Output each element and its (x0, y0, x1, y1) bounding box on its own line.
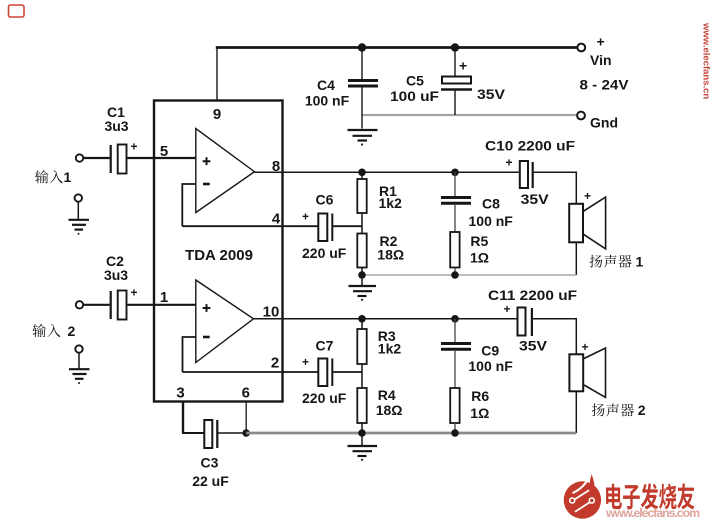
svg-text:9: 9 (213, 106, 221, 123)
ground under C4 (348, 130, 378, 141)
speaker LS2 (569, 354, 583, 391)
svg-text:1k2: 1k2 (379, 195, 403, 211)
svg-text:R4: R4 (378, 387, 396, 403)
resistor R2 (357, 234, 366, 268)
wire pin10 output net (254, 318, 518, 320)
node junction C5/V+ (451, 43, 459, 51)
node C8 top (451, 169, 459, 177)
svg-text:C11 2200 uF: C11 2200 uF (488, 287, 577, 303)
wire feedback U1a to pin4 net (182, 184, 196, 226)
svg-text:R6: R6 (471, 388, 489, 404)
wire feedback U1b to pin2 net (183, 337, 196, 372)
label shu-ru input2 (33, 324, 46, 337)
wire return line ch1 (362, 274, 576, 276)
svg-text:TDA 2009: TDA 2009 (185, 247, 253, 264)
svg-text:2: 2 (638, 402, 646, 418)
svg-text:10: 10 (263, 304, 280, 321)
svg-text:C7: C7 (316, 338, 334, 354)
svg-text:1k2: 1k2 (378, 341, 402, 357)
wire speaker2 to return (575, 391, 577, 433)
capacitor C3 (204, 420, 212, 448)
node R6 bottom (451, 429, 459, 437)
svg-text:4: 4 (272, 211, 281, 228)
svg-text:+: + (584, 189, 591, 203)
resistor R3 (361, 319, 363, 329)
svg-text:1Ω: 1Ω (470, 250, 489, 266)
svg-text:Vin: Vin (590, 52, 612, 68)
svg-text:2: 2 (68, 323, 76, 339)
resistor R5 (450, 232, 459, 268)
svg-text:+: + (504, 302, 511, 316)
node R2 bottom (358, 271, 366, 279)
svg-text:+: + (131, 140, 138, 154)
svg-text:6: 6 (242, 385, 250, 402)
speaker LS1 (569, 204, 583, 243)
label +Vin (580, 34, 630, 131)
svg-text:35V: 35V (521, 191, 550, 207)
svg-text:1: 1 (160, 289, 168, 306)
svg-text:22 uF: 22 uF (192, 473, 229, 489)
pin labels (160, 106, 281, 402)
watermark corner box (9, 5, 25, 17)
wire pin4 net (182, 225, 318, 227)
terminal Vin (577, 44, 585, 52)
svg-text:C8: C8 (482, 196, 500, 212)
svg-text:100 uF: 100 uF (390, 88, 439, 104)
label C2 3u3 (104, 253, 128, 283)
wire bottom return ch2 (246, 432, 576, 435)
wire pin2 net (183, 371, 319, 373)
svg-text:3u3: 3u3 (104, 118, 128, 134)
terminal input2 (76, 301, 83, 308)
wire Gnd rail (362, 114, 577, 116)
svg-text:35V: 35V (477, 86, 506, 102)
node R3 top (358, 315, 366, 323)
svg-text:18Ω: 18Ω (376, 402, 403, 418)
terminal Gnd (577, 112, 585, 120)
ground input1 (75, 194, 82, 201)
wire pin9 to V+ rail (216, 48, 218, 101)
svg-text:+: + (506, 156, 513, 170)
ground ch2 (361, 433, 363, 446)
svg-text:C3: C3 (201, 455, 219, 471)
op-amp U1b triangle (196, 280, 254, 363)
capacitor C1 (110, 145, 112, 173)
svg-text:100 nF: 100 nF (305, 93, 350, 109)
wire R3-R4 junction (361, 364, 363, 388)
wire R1-R2 junction (361, 213, 363, 234)
ground ch1 (361, 275, 363, 286)
node pin6/C3 junction (242, 429, 250, 437)
wire C10 to speaker1 (533, 172, 576, 204)
capacitor C9 (454, 319, 456, 342)
capacitor C8 (454, 172, 456, 196)
svg-text:220 uF: 220 uF (302, 245, 347, 261)
label C1 3u3 (104, 104, 128, 134)
label shu-ru input1 (35, 170, 48, 183)
resistor R4 (357, 388, 366, 423)
wire C1 to pin5 / op-amp input (127, 157, 196, 159)
node C9 top (451, 315, 459, 323)
svg-text:+: + (131, 286, 138, 300)
svg-text:1: 1 (636, 254, 644, 270)
wire speaker1 to return (575, 242, 577, 275)
ground input2 (75, 345, 82, 352)
label yang-sheng-qi speaker1 (589, 255, 602, 268)
svg-text:100 nF: 100 nF (469, 213, 514, 229)
svg-text:www.elecfans.cn: www.elecfans.cn (701, 22, 712, 99)
wire input2 to C2 (84, 304, 110, 306)
svg-text:Gnd: Gnd (590, 114, 618, 130)
label yang-sheng-qi speaker2 (592, 403, 605, 416)
svg-text:220 uF: 220 uF (302, 390, 347, 406)
svg-text:+: + (302, 355, 309, 369)
svg-text:3: 3 (176, 385, 184, 402)
wire V+ top rail (216, 46, 577, 49)
wire pin8 output net (255, 171, 520, 173)
wire C2 to pin1 / op-amp input (127, 304, 196, 306)
svg-text:C5: C5 (406, 73, 424, 89)
svg-text:1Ω: 1Ω (470, 405, 489, 421)
svg-text:+: + (459, 58, 467, 74)
svg-text:8 - 24V: 8 - 24V (580, 77, 630, 93)
wire input1 to C1 (84, 157, 110, 159)
node R4 bottom (358, 429, 366, 437)
resistor R1 (361, 172, 363, 179)
node R5 bottom (451, 271, 459, 279)
terminal input1 (76, 154, 83, 161)
capacitor C2 (110, 291, 112, 319)
svg-text:18Ω: 18Ω (377, 247, 404, 263)
svg-text:35V: 35V (519, 338, 548, 354)
svg-text:R5: R5 (470, 233, 488, 249)
svg-text:C10 2200 uF: C10 2200 uF (485, 138, 575, 154)
wire C11 to speaker2 (532, 319, 576, 354)
resistor R6 (450, 388, 459, 423)
wire pin6 down (245, 402, 247, 434)
svg-text:+: + (597, 34, 605, 50)
watermark text dianzifashaoyou (606, 484, 622, 509)
node R1 top (358, 169, 366, 177)
svg-text:+: + (582, 340, 589, 354)
svg-text:2: 2 (271, 355, 279, 372)
wire pin3 down (182, 402, 184, 434)
watermark logo elecfans (564, 474, 601, 519)
op-amp U1a triangle (196, 129, 255, 213)
svg-text:100 nF: 100 nF (468, 358, 513, 374)
label C4 100nF (305, 77, 350, 109)
svg-text:3u3: 3u3 (104, 267, 128, 283)
svg-text:C4: C4 (317, 77, 335, 93)
svg-text:+: + (302, 210, 309, 224)
label C5 + 100uF 35V (390, 58, 506, 105)
svg-text:www.elecfans.com: www.elecfans.com (605, 506, 700, 520)
svg-text:C9: C9 (481, 343, 499, 359)
capacitor C4 (361, 48, 363, 80)
svg-text:1: 1 (64, 169, 72, 185)
op-amp IC box TDA 2009 (154, 101, 283, 402)
capacitor C5 (454, 48, 456, 77)
svg-text:C6: C6 (316, 192, 334, 208)
wire pin3 to C3 (182, 432, 204, 434)
wire C3 to pin6 node (218, 432, 246, 434)
node junction C4/V+ (358, 43, 366, 51)
